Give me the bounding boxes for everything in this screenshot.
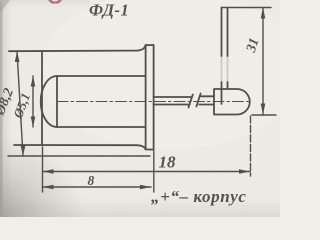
dimension line dia 5.1 [32, 76, 34, 127]
flange bottom edge [146, 148, 154, 150]
arrow 31 down [261, 104, 266, 115]
left extension line below body [42, 147, 44, 192]
flange right edge [153, 45, 155, 150]
lead wire left line [221, 8, 223, 57]
top extension line for 31 [222, 7, 272, 9]
arrow 8 right [140, 185, 151, 190]
stem break slash left [189, 95, 193, 108]
arrow dia5.1 down [31, 117, 36, 128]
stem right piece top [201, 95, 214, 97]
flange top edge [146, 44, 154, 46]
stem left piece top [154, 96, 191, 98]
dimension line dia 8.2 [17, 51, 23, 156]
dimension line 18 [43, 171, 251, 173]
arrow 18 left [43, 169, 54, 174]
flange left edge [145, 45, 147, 149]
dimension line 8 [43, 186, 152, 188]
lens bottom line [57, 126, 146, 128]
lens flat side [56, 76, 58, 127]
bottom extension line dia 8.2 [8, 155, 150, 157]
arrow 18 right [239, 169, 250, 174]
stem left piece bottom [154, 104, 190, 106]
lead wire right line [227, 8, 229, 57]
paper grain [0, 0, 280, 217]
axis center line [57, 101, 252, 103]
body top outline [9, 45, 146, 51]
body bottom outline [14, 145, 146, 149]
arrow 31 up [261, 8, 266, 19]
stem right piece bottom [199, 104, 214, 106]
bottom extension line for 31 [252, 114, 276, 116]
lens top line [57, 75, 146, 77]
arrow dia8.2 up [15, 51, 20, 62]
paper background [0, 0, 280, 217]
terminal head outline [214, 89, 250, 115]
arrow dia5.1 up [31, 76, 36, 87]
arrow 8 left [43, 185, 54, 190]
red pen mark [49, 0, 62, 3]
arrow dia8.2 down [21, 146, 26, 157]
stem break slash right [196, 94, 200, 107]
dark corner mark top-left [0, 0, 10, 13]
body left face [41, 51, 43, 145]
dimension line 31 [262, 8, 264, 115]
right extension line for 8 [153, 151, 155, 192]
lens dome arc [41, 76, 57, 127]
right extension line for 18 [250, 116, 252, 176]
